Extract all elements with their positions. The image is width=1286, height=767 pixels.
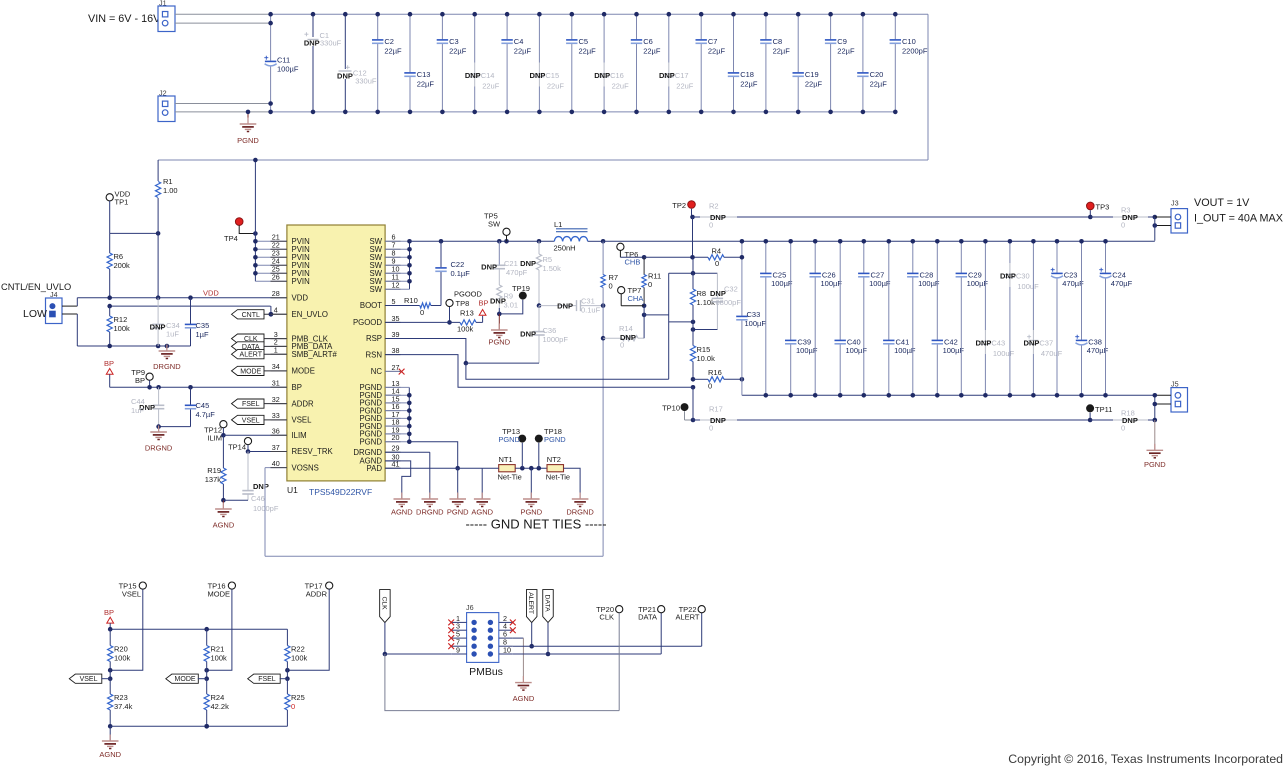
svg-text:330uF: 330uF xyxy=(320,39,342,48)
test point TP13 xyxy=(498,427,526,468)
svg-text:NT1: NT1 xyxy=(499,455,513,464)
ground AGND net-tie xyxy=(471,468,493,516)
resistor R23 xyxy=(108,679,133,729)
svg-text:CNTL: CNTL xyxy=(242,312,260,319)
svg-text:C5: C5 xyxy=(579,37,589,46)
svg-text:TP14: TP14 xyxy=(228,443,246,452)
connector J5 xyxy=(1153,380,1188,413)
svg-text:VSEL: VSEL xyxy=(242,417,260,424)
wire PGND bottom bus xyxy=(271,111,896,113)
svg-text:1uF: 1uF xyxy=(166,330,179,339)
svg-text:250nH: 250nH xyxy=(554,244,576,253)
flag VSEL xyxy=(232,415,289,424)
wire J1 pin1 to top bus xyxy=(175,13,271,15)
svg-text:R25: R25 xyxy=(291,693,305,702)
svg-text:TP19: TP19 xyxy=(512,284,530,293)
wire DATA line pin10 to TP21 xyxy=(513,613,661,654)
svg-text:31: 31 xyxy=(272,379,280,388)
resistor R3 DNP xyxy=(1090,206,1157,230)
svg-text:C44: C44 xyxy=(131,397,145,406)
svg-text:0: 0 xyxy=(715,259,719,268)
test point TP7 CHA xyxy=(618,286,644,306)
svg-text:TP10: TP10 xyxy=(662,404,680,413)
svg-text:DNP: DNP xyxy=(481,263,497,272)
svg-text:22µF: 22µF xyxy=(870,80,888,89)
flag DATA xyxy=(232,342,289,351)
connector J3 xyxy=(1153,199,1188,241)
connector J1 xyxy=(158,0,175,32)
capacitor C13 xyxy=(404,12,434,114)
wire RESV_TRK pin37 xyxy=(248,451,288,453)
svg-text:PGND: PGND xyxy=(488,338,510,347)
svg-text:1: 1 xyxy=(274,346,278,355)
capacitor C25 xyxy=(760,239,793,398)
svg-text:AGND: AGND xyxy=(391,508,413,517)
wire TP20 bottom loop xyxy=(385,654,619,711)
svg-text:C11: C11 xyxy=(277,56,290,65)
svg-text:20: 20 xyxy=(392,433,400,442)
ground AGND divider xyxy=(99,726,121,759)
svg-text:C8: C8 xyxy=(773,37,783,46)
resistor R20 xyxy=(108,629,131,681)
svg-text:100µF: 100µF xyxy=(277,65,299,74)
svg-text:22µF: 22µF xyxy=(773,47,791,56)
flag FSEL xyxy=(232,399,289,408)
inductor L1 xyxy=(554,220,588,253)
svg-text:BP: BP xyxy=(292,383,302,392)
capacitor C24 xyxy=(1099,239,1132,398)
svg-text:0: 0 xyxy=(709,221,713,230)
svg-text:C4: C4 xyxy=(514,37,524,46)
svg-text:R15: R15 xyxy=(697,345,711,354)
svg-text:VOSNS: VOSNS xyxy=(292,463,319,472)
connector J6 PMBus xyxy=(466,603,503,678)
svg-text:TP11: TP11 xyxy=(1095,405,1112,414)
svg-text:J3: J3 xyxy=(1171,199,1179,208)
svg-text:MODE: MODE xyxy=(208,590,231,599)
svg-text:C36: C36 xyxy=(543,326,557,335)
svg-text:C45: C45 xyxy=(196,401,210,410)
svg-text:PGND: PGND xyxy=(237,136,259,145)
wire DRGND line xyxy=(77,344,190,349)
svg-text:PAD: PAD xyxy=(367,464,383,473)
svg-text:DRGND: DRGND xyxy=(566,508,594,517)
ic U1 TPS549D22RVF body xyxy=(287,225,385,497)
svg-text:TP2: TP2 xyxy=(672,201,686,210)
capacitor C37 xyxy=(1024,239,1063,398)
capacitor C10 xyxy=(890,12,928,114)
ground DRGND pin29 xyxy=(416,493,444,517)
svg-text:R14: R14 xyxy=(619,324,633,333)
wire J4 pin1 to VDD net xyxy=(62,298,77,306)
svg-text:R17: R17 xyxy=(709,405,723,414)
svg-text:AGND: AGND xyxy=(213,521,235,530)
svg-text:22µF: 22µF xyxy=(579,47,597,56)
svg-text:AGND: AGND xyxy=(513,694,535,703)
flag CNTL xyxy=(232,310,289,319)
svg-text:36: 36 xyxy=(272,427,280,436)
svg-text:MODE: MODE xyxy=(240,368,261,375)
resistor R21 xyxy=(204,629,227,681)
svg-text:C37: C37 xyxy=(1039,339,1053,348)
resistor R4 xyxy=(644,247,742,268)
text copyright xyxy=(1008,752,1283,766)
svg-text:TPS549D22RVF: TPS549D22RVF xyxy=(309,487,372,497)
capacitor C3 xyxy=(437,12,467,114)
svg-text:0: 0 xyxy=(1121,424,1125,433)
svg-text:DNP: DNP xyxy=(253,482,269,491)
svg-text:R12: R12 xyxy=(114,315,128,324)
resistor R1 xyxy=(156,160,178,298)
svg-text:PGOOD: PGOOD xyxy=(353,318,382,327)
svg-text:ILIM: ILIM xyxy=(207,434,222,443)
ground AGND under R19 xyxy=(213,500,235,529)
svg-text:C22: C22 xyxy=(451,260,465,269)
svg-text:VDD: VDD xyxy=(292,293,309,302)
wire SW rail to L1 xyxy=(410,239,555,244)
svg-text:C43: C43 xyxy=(991,339,1005,348)
svg-text:330uF: 330uF xyxy=(355,77,377,86)
svg-text:PMBus: PMBus xyxy=(469,666,503,678)
svg-text:PGND: PGND xyxy=(544,435,566,444)
test point TP14 xyxy=(228,438,252,454)
power symbol BP divider xyxy=(104,608,114,629)
svg-text:22µF: 22µF xyxy=(514,47,532,56)
svg-text:470µF: 470µF xyxy=(1111,279,1133,288)
connector J4 xyxy=(23,290,62,324)
svg-text:VSEL: VSEL xyxy=(80,676,98,683)
resistor R8 xyxy=(690,273,715,322)
svg-text:R5: R5 xyxy=(543,255,553,264)
svg-text:DNP: DNP xyxy=(976,339,992,348)
svg-text:C20: C20 xyxy=(870,70,884,79)
ground AGND pmbus xyxy=(513,676,535,703)
svg-text:100k: 100k xyxy=(114,654,131,663)
test point TP4 xyxy=(224,218,258,243)
svg-text:9: 9 xyxy=(456,646,460,655)
wire AGND pin30 xyxy=(385,461,411,499)
svg-text:----- GND NET TIES -----: ----- GND NET TIES ----- xyxy=(465,517,606,532)
svg-text:0: 0 xyxy=(708,382,712,391)
svg-text:DNP: DNP xyxy=(1000,272,1016,281)
capacitor C45 xyxy=(185,387,215,426)
capacitor C11 xyxy=(264,12,299,114)
test point TP6 CHB xyxy=(617,243,647,266)
svg-text:ALERT: ALERT xyxy=(240,352,263,359)
svg-text:0.1µF: 0.1µF xyxy=(451,269,471,278)
svg-text:28: 28 xyxy=(272,289,280,298)
test point TP15 xyxy=(108,582,147,673)
wire EN_UVLO line xyxy=(107,304,273,317)
svg-text:TP1: TP1 xyxy=(115,198,129,207)
svg-text:1000pF: 1000pF xyxy=(253,504,279,513)
svg-text:C33: C33 xyxy=(747,310,761,319)
svg-text:0: 0 xyxy=(609,282,613,291)
svg-text:RSN: RSN xyxy=(366,350,382,359)
wire J2 pin1 xyxy=(175,103,271,105)
wire J1 pin2 xyxy=(175,22,271,24)
svg-text:CLK: CLK xyxy=(380,596,387,610)
wire R8 top rail xyxy=(669,271,718,276)
wire PGOOD pin35 xyxy=(385,321,460,323)
svg-text:0: 0 xyxy=(709,424,713,433)
test point TP16 xyxy=(204,582,235,673)
svg-text:SW: SW xyxy=(488,220,501,229)
svg-text:DNP: DNP xyxy=(659,71,675,80)
svg-text:CNTL/EN_UVLO: CNTL/EN_UVLO xyxy=(1,282,71,292)
svg-text:R21: R21 xyxy=(211,645,225,654)
capacitor C29 xyxy=(956,239,989,398)
svg-text:C13: C13 xyxy=(417,70,431,79)
power symbol BP at R13 xyxy=(479,299,489,316)
svg-text:VSEL: VSEL xyxy=(292,416,313,425)
text CNTL/EN_UVLO xyxy=(1,282,71,292)
svg-text:100µF: 100µF xyxy=(821,279,843,288)
resistor R15 xyxy=(690,322,715,390)
svg-text:DNP: DNP xyxy=(594,71,610,80)
ground DRGND net-tie right xyxy=(566,493,594,517)
test point TP20 xyxy=(596,605,623,711)
test point TP1 xyxy=(106,190,131,234)
wire PVIN bus xyxy=(253,158,288,282)
wire VIN feed rail xyxy=(158,159,928,161)
svg-text:22uF: 22uF xyxy=(547,82,565,91)
svg-text:CLK: CLK xyxy=(599,613,614,622)
capacitor C41 xyxy=(883,239,916,398)
wire TP2 column xyxy=(690,217,695,273)
svg-text:100uF: 100uF xyxy=(1017,282,1039,291)
svg-text:42.2k: 42.2k xyxy=(211,702,230,711)
capacitor C21 DNP snubber xyxy=(481,241,528,285)
svg-text:L1: L1 xyxy=(554,220,562,229)
svg-text:BP: BP xyxy=(104,359,114,368)
svg-text:C14: C14 xyxy=(481,71,495,80)
svg-text:6800pF: 6800pF xyxy=(716,298,742,307)
svg-text:MODE: MODE xyxy=(175,676,196,683)
svg-text:R16: R16 xyxy=(708,368,722,377)
svg-text:LOW: LOW xyxy=(23,308,47,320)
resistor R14 DNP xyxy=(601,306,644,350)
ground AGND pin30 xyxy=(391,493,413,517)
wire RSP route xyxy=(385,339,669,380)
capacitor C31 DNP xyxy=(539,297,605,315)
capacitor C7 xyxy=(696,12,726,114)
svg-text:C7: C7 xyxy=(708,37,718,46)
svg-text:200k: 200k xyxy=(114,261,131,270)
svg-text:5: 5 xyxy=(392,297,396,306)
connector J2 xyxy=(158,89,175,122)
svg-text:C35: C35 xyxy=(196,321,210,330)
svg-text:22uF: 22uF xyxy=(482,82,500,91)
svg-text:1.50k: 1.50k xyxy=(543,264,562,273)
capacitor C44 DNP xyxy=(131,387,164,426)
flag MODE divider xyxy=(166,674,207,683)
test point TP22 xyxy=(675,605,705,622)
capacitor C36 DNP xyxy=(520,306,568,364)
svg-text:C17: C17 xyxy=(675,71,689,80)
capacitor C34 DNP xyxy=(150,298,180,346)
svg-text:10.0k: 10.0k xyxy=(697,354,716,363)
ground PGND output xyxy=(1144,420,1166,469)
capacitor C38 xyxy=(1075,239,1108,398)
test point TP5 SW xyxy=(484,212,510,242)
svg-text:DATA: DATA xyxy=(544,595,551,613)
resistor R10 xyxy=(385,296,441,317)
svg-text:37.4k: 37.4k xyxy=(114,702,133,711)
capacitor C35 xyxy=(185,298,209,346)
resistor R6 xyxy=(107,233,130,297)
resistor R16 xyxy=(693,368,744,391)
svg-text:DNP: DNP xyxy=(150,323,166,332)
capacitor C6 xyxy=(631,12,661,114)
resistor R25 xyxy=(285,679,305,727)
capacitor C22 xyxy=(435,241,470,305)
svg-text:PGND: PGND xyxy=(498,435,520,444)
svg-text:100uF: 100uF xyxy=(993,349,1015,358)
svg-text:0.1uF: 0.1uF xyxy=(581,306,601,315)
svg-text:SMB_ALRT#: SMB_ALRT# xyxy=(292,350,338,359)
svg-text:29: 29 xyxy=(392,444,400,453)
capacitor C33 xyxy=(736,239,766,395)
test point TP18 xyxy=(535,427,566,468)
svg-text:DRGND: DRGND xyxy=(416,508,444,517)
capacitor C20 xyxy=(857,12,887,114)
resistor R9 DNP xyxy=(490,285,518,314)
wire SW bus xyxy=(385,239,412,289)
svg-text:100k: 100k xyxy=(457,325,474,334)
svg-text:34: 34 xyxy=(272,362,280,371)
svg-text:R20: R20 xyxy=(114,645,128,654)
svg-text:22uF: 22uF xyxy=(612,82,630,91)
svg-text:39: 39 xyxy=(392,330,400,339)
capacitor C16 xyxy=(594,12,629,114)
svg-text:CHB: CHB xyxy=(625,258,641,267)
svg-text:22µF: 22µF xyxy=(449,47,467,56)
svg-text:Net-Tie: Net-Tie xyxy=(498,472,522,481)
svg-text:DNP: DNP xyxy=(337,71,353,80)
capacitor C17 xyxy=(659,12,694,114)
svg-text:PGOOD: PGOOD xyxy=(454,290,483,299)
test point TP12 xyxy=(204,421,227,443)
svg-text:C18: C18 xyxy=(740,70,754,79)
svg-text:100µF: 100µF xyxy=(796,346,818,355)
svg-text:BOOT: BOOT xyxy=(360,301,382,310)
svg-text:CHA: CHA xyxy=(628,294,644,303)
wire ILIM pin36 xyxy=(223,434,288,436)
svg-text:RESV_TRK: RESV_TRK xyxy=(292,447,334,456)
svg-text:1µF: 1µF xyxy=(196,330,209,339)
wire J2 pin2 / bottom bus start xyxy=(175,111,271,113)
power flag BP test point TP9 xyxy=(131,368,153,387)
wire PGND pin bus xyxy=(385,387,412,444)
svg-text:TP3: TP3 xyxy=(1096,203,1110,212)
wire RSN route xyxy=(385,355,693,388)
wire J4 pin2 to DRGND net xyxy=(62,314,77,346)
svg-text:22µF: 22µF xyxy=(740,80,758,89)
svg-text:AGND: AGND xyxy=(471,508,493,517)
svg-text:BP: BP xyxy=(135,376,145,385)
svg-text:40: 40 xyxy=(272,459,280,468)
test point TP2 xyxy=(672,201,695,220)
svg-text:NC: NC xyxy=(371,367,383,376)
svg-text:C16: C16 xyxy=(610,71,624,80)
test point TP21 xyxy=(638,605,665,622)
svg-text:10: 10 xyxy=(503,646,511,655)
svg-text:DRGND: DRGND xyxy=(353,448,382,457)
test point TP8 PGOOD xyxy=(446,290,483,325)
wire VOUT bottom rail xyxy=(742,395,1155,420)
svg-text:FSEL: FSEL xyxy=(258,676,276,683)
svg-text:37: 37 xyxy=(272,443,280,452)
svg-text:22µF: 22µF xyxy=(417,80,435,89)
test point TP17 xyxy=(285,582,333,673)
flag CLK vertical xyxy=(380,590,391,657)
svg-text:NT2: NT2 xyxy=(547,455,561,464)
text VOUT labels xyxy=(1194,197,1283,225)
wire VDD line xyxy=(77,289,288,301)
svg-text:470uF: 470uF xyxy=(1041,349,1063,358)
wire R15 column low xyxy=(692,387,694,420)
capacitor C23 xyxy=(1051,239,1084,398)
capacitor C26 xyxy=(810,239,843,398)
svg-text:100µF: 100µF xyxy=(869,279,891,288)
wire PGND bus to pad node xyxy=(409,442,460,471)
resistor R22 xyxy=(285,629,308,681)
svg-text:ADDR: ADDR xyxy=(306,590,328,599)
wire VOUT rail xyxy=(603,240,1155,242)
capacitor C19 xyxy=(793,12,823,114)
svg-text:27: 27 xyxy=(392,363,400,372)
svg-text:VOUT = 1V: VOUT = 1V xyxy=(1194,197,1250,209)
ground DRGND second xyxy=(145,426,173,453)
svg-text:0: 0 xyxy=(648,280,652,289)
resistor R17 DNP xyxy=(693,405,1090,433)
wire C44 C45 to DRGND xyxy=(156,424,190,432)
svg-text:0: 0 xyxy=(420,308,424,317)
svg-text:DNP: DNP xyxy=(520,330,536,339)
svg-text:22µF: 22µF xyxy=(837,47,855,56)
svg-text:C32: C32 xyxy=(724,285,738,294)
ground DRGND left xyxy=(153,345,181,372)
resistor R24 xyxy=(204,679,229,729)
svg-text:C46: C46 xyxy=(251,494,265,503)
svg-text:R8: R8 xyxy=(697,289,707,298)
test point TP11 xyxy=(1086,404,1112,422)
wire divider bottom rail xyxy=(110,724,287,729)
ground PGND net-tie mid xyxy=(520,468,542,516)
svg-text:R22: R22 xyxy=(291,645,305,654)
resistor R11 xyxy=(642,257,661,317)
svg-text:C10: C10 xyxy=(902,37,916,46)
ground PGND snubber xyxy=(488,314,510,347)
text VIN label xyxy=(88,13,161,25)
svg-text:ALERT: ALERT xyxy=(675,613,699,622)
capacitor C5 xyxy=(566,12,596,114)
svg-text:C9: C9 xyxy=(837,37,847,46)
svg-text:J6: J6 xyxy=(466,603,474,612)
svg-text:2200pF: 2200pF xyxy=(902,47,928,56)
svg-text:PGND: PGND xyxy=(447,508,469,517)
svg-text:0: 0 xyxy=(291,702,295,711)
svg-text:BP: BP xyxy=(479,299,489,308)
flag DATA vertical xyxy=(543,590,554,657)
net-tie NT1 xyxy=(482,455,547,481)
wire TP1 to R1 column xyxy=(110,231,161,236)
svg-text:DNP: DNP xyxy=(1024,339,1040,348)
ic U1 left pin names xyxy=(271,233,338,473)
svg-text:ADDR: ADDR xyxy=(292,399,314,408)
svg-text:100k: 100k xyxy=(114,324,131,333)
